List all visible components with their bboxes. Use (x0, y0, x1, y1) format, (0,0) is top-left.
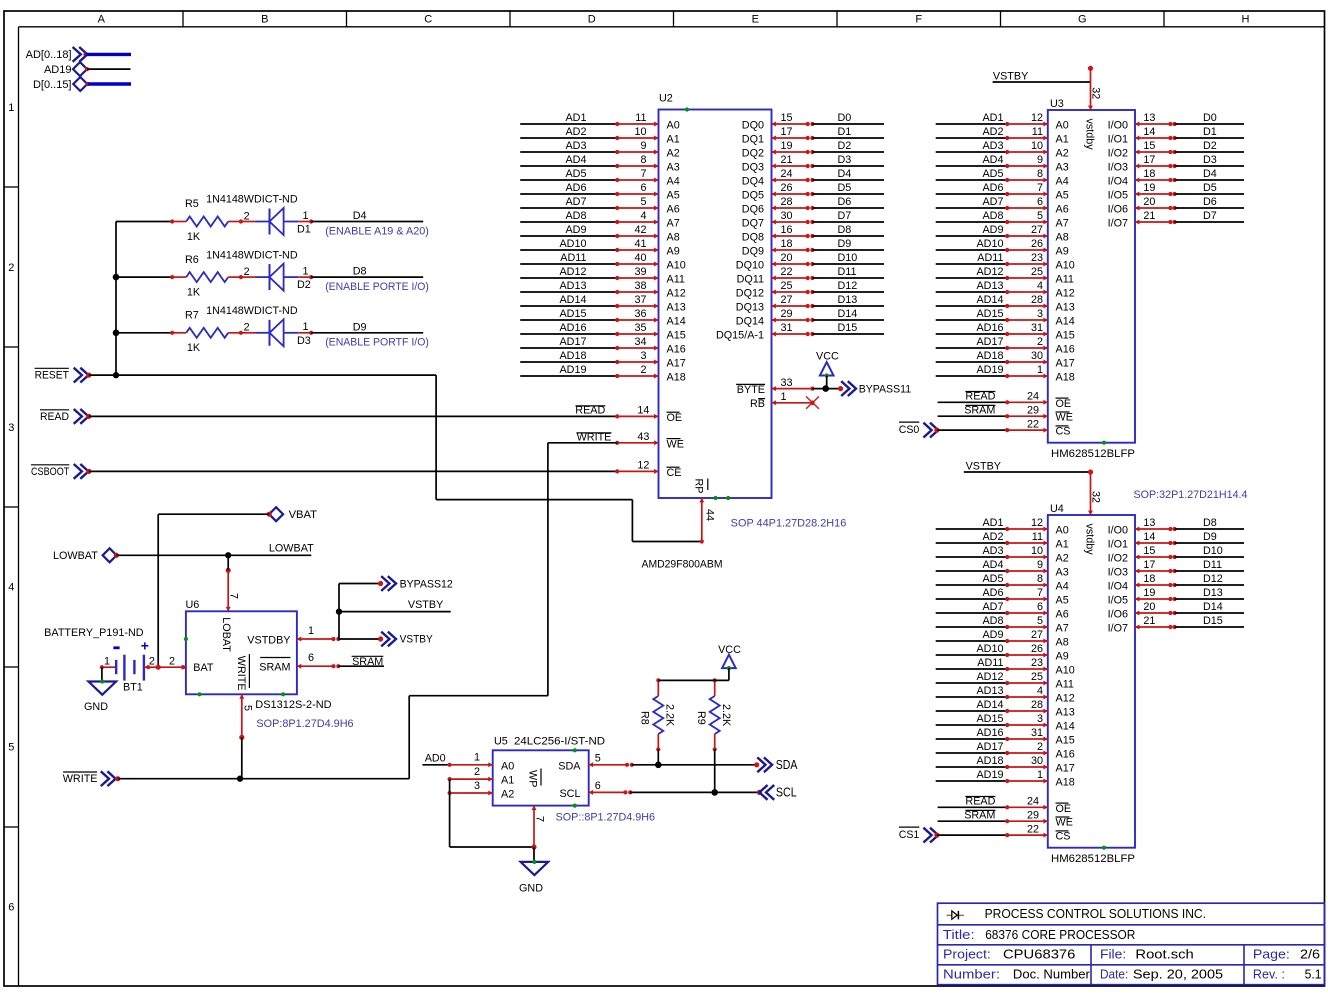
svg-text:VSTBY: VSTBY (966, 461, 1001, 473)
label 1N4148WDICT-ND for diode D3 (206, 305, 298, 317)
svg-text:CS: CS (1056, 831, 1071, 843)
svg-text:AD16: AD16 (559, 322, 586, 334)
svg-text:14: 14 (1143, 126, 1155, 138)
svg-text:Doc. Number: Doc. Number (1013, 967, 1091, 982)
svg-text:AD4: AD4 (565, 154, 586, 166)
svg-text:A2: A2 (667, 148, 680, 160)
pin number 2 of diode D2 (244, 266, 250, 278)
svg-text:24: 24 (1027, 391, 1039, 403)
svg-text:68376 CORE PROCESSOR: 68376 CORE PROCESSOR (985, 927, 1135, 942)
svg-text:1: 1 (1037, 769, 1043, 781)
U3 pin 22 CS wire from CS0 (937, 418, 1071, 437)
svg-text:3: 3 (474, 780, 480, 792)
U5 pin 7 WP (527, 769, 546, 850)
bus wire D[0..15] (88, 82, 131, 85)
U3 pin 29 WE wire SRAM (938, 404, 1073, 423)
svg-text:AMD29F800ABM: AMD29F800ABM (642, 559, 723, 571)
U3 pin 12 A0 wire AD1 (936, 112, 1069, 131)
svg-text:2: 2 (244, 210, 250, 222)
svg-text:vstdby: vstdby (1083, 119, 1095, 151)
label (ENABLE A19 & A20) (325, 225, 429, 237)
U4 pin 18 I/O4 wire D12 (1108, 573, 1244, 592)
svg-text:40: 40 (634, 252, 646, 264)
svg-text:5: 5 (1037, 615, 1043, 627)
U6 pin 7 LOBAT (220, 568, 239, 653)
svg-text:D9: D9 (838, 238, 852, 250)
port READ (40, 409, 91, 424)
svg-text:A15: A15 (1056, 330, 1075, 342)
title block row 4 Number Date Rev (943, 967, 1322, 982)
svg-text:2: 2 (149, 655, 155, 667)
svg-text:A16: A16 (667, 344, 686, 356)
svg-text:36: 36 (634, 308, 646, 320)
svg-text:I/O2: I/O2 (1108, 148, 1128, 160)
svg-text:DQ6: DQ6 (742, 204, 764, 216)
svg-text:VSTBY: VSTBY (993, 71, 1028, 83)
U4 pin 32 vstdby (1083, 469, 1101, 555)
svg-text:1K: 1K (187, 231, 201, 243)
wire U5 A1/A2 to WP/GND (450, 779, 534, 847)
svg-text:R8: R8 (639, 711, 651, 725)
label SOP::8P1.27D4.9H6 for U5 (556, 811, 655, 823)
svg-text:WE: WE (1056, 412, 1073, 424)
svg-text:1K: 1K (187, 342, 201, 354)
svg-text:CS: CS (1056, 426, 1071, 438)
svg-text:AD19: AD19 (976, 769, 1003, 781)
U2 pin 38 A12 wire AD13 (520, 280, 686, 299)
label (ENABLE PORTF I/O) (325, 337, 429, 349)
U3 pin 7 A5 wire AD6 (936, 182, 1069, 201)
svg-text:D11: D11 (1203, 559, 1222, 571)
svg-text:12: 12 (1031, 112, 1043, 124)
svg-text:4: 4 (1037, 685, 1043, 697)
svg-text:(ENABLE PORTE I/O): (ENABLE PORTE I/O) (325, 281, 429, 293)
svg-text:AD18: AD18 (976, 350, 1003, 362)
svg-text:U2: U2 (659, 93, 673, 105)
wire to resistor R7 (116, 332, 172, 334)
svg-text:D15: D15 (1203, 615, 1223, 627)
svg-text:WE: WE (1056, 817, 1073, 829)
svg-text:AD10: AD10 (976, 238, 1003, 250)
svg-text:WP: WP (527, 770, 539, 787)
svg-text:D2: D2 (838, 140, 852, 152)
pin number 1 of diode D3 (302, 321, 308, 333)
svg-text:U3: U3 (1050, 98, 1064, 110)
svg-text:19: 19 (781, 140, 793, 152)
svg-text:AD19: AD19 (976, 364, 1003, 376)
svg-text:AD12: AD12 (559, 266, 586, 278)
svg-text:BYPASS11: BYPASS11 (859, 383, 911, 395)
wire WRITE vertical to U2 WE (548, 443, 617, 696)
port CS0 (899, 422, 940, 437)
svg-text:AD14: AD14 (976, 294, 1003, 306)
svg-text:D4: D4 (1203, 168, 1217, 180)
U2 pin 40 A10 wire AD11 (520, 252, 686, 271)
svg-text:H: H (1242, 14, 1250, 26)
svg-text:20: 20 (781, 252, 793, 264)
svg-text:29: 29 (1027, 809, 1039, 821)
svg-text:R7: R7 (185, 310, 199, 322)
svg-text:44: 44 (703, 509, 715, 521)
svg-text:AD11: AD11 (977, 657, 1003, 669)
label 1N4148WDICT-ND for diode D2 (206, 249, 298, 261)
net label VSTBY wire at U3 top (993, 71, 1091, 83)
U2 pin 26 DQ5 wire D5 (742, 182, 884, 201)
wire and port BYPASS12 (339, 576, 453, 591)
svg-text:6: 6 (595, 780, 601, 792)
svg-text:A8: A8 (1056, 637, 1069, 649)
svg-text:D7: D7 (838, 210, 852, 222)
svg-text:4: 4 (640, 210, 646, 222)
svg-text:GND: GND (84, 701, 108, 713)
svg-text:A9: A9 (667, 246, 680, 258)
port D[0..15] (33, 77, 90, 91)
svg-text:A11: A11 (1056, 679, 1074, 691)
svg-text:SCL: SCL (559, 788, 580, 800)
port LOWBAT (53, 548, 119, 562)
U3 pin 20 I/O6 wire D6 (1108, 196, 1244, 215)
label SOP:8P1.27D4.9H6 for U6 (256, 718, 353, 730)
svg-text:2: 2 (474, 766, 480, 778)
svg-text:A13: A13 (1056, 707, 1075, 719)
svg-text:13: 13 (1143, 112, 1155, 124)
U3 pin 1 A18 wire AD19 (936, 364, 1075, 383)
svg-text:WRITE: WRITE (63, 773, 98, 785)
svg-text:AD5: AD5 (982, 168, 1003, 180)
label SOP:32P1.27D21H14.4 for U4 (1134, 489, 1248, 501)
svg-text:5.1: 5.1 (1305, 967, 1322, 982)
svg-text:D4: D4 (838, 168, 852, 180)
svg-text:A4: A4 (1056, 176, 1069, 188)
svg-text:A18: A18 (1056, 777, 1075, 789)
U3 pin 32 vstdby (1083, 66, 1101, 151)
label 1N4148WDICT-ND for diode D1 (206, 194, 298, 206)
U2 pin 14 OE with READ label (575, 405, 605, 417)
U2 pin 39 A11 wire AD12 (520, 266, 685, 285)
svg-text:D6: D6 (838, 196, 852, 208)
U3 pin 15 I/O2 wire D2 (1108, 140, 1244, 159)
svg-text:GND: GND (519, 883, 543, 895)
svg-text:BYPASS12: BYPASS12 (400, 578, 453, 590)
U4 pin 7 A5 wire AD6 (936, 587, 1069, 606)
label AMD29F800ABM for U2 (642, 559, 723, 571)
svg-text:A1: A1 (667, 134, 680, 146)
svg-text:10: 10 (1031, 140, 1043, 152)
U4 pin 31 A15 wire AD16 (936, 727, 1075, 746)
svg-text:7: 7 (534, 816, 546, 822)
wire trunk from RESET up to R5/R6/R7 (113, 222, 120, 376)
U2 pin 18 DQ9 wire D9 (742, 238, 884, 257)
svg-text:A14: A14 (1056, 721, 1075, 733)
svg-text:17: 17 (1143, 559, 1155, 571)
svg-text:U5: U5 (494, 736, 508, 748)
U5 pin 1 A0 wire AD0 (422, 752, 514, 773)
svg-text:A12: A12 (1056, 288, 1075, 300)
wire VBAT to battery junction (156, 514, 270, 670)
U2 pin 34 A16 wire AD17 (520, 336, 686, 355)
svg-text:2.2K: 2.2K (664, 704, 676, 727)
power symbol VCC at R8/R9 (718, 644, 741, 681)
svg-text:RB: RB (750, 398, 765, 410)
U2 pin 42 A8 wire AD9 (520, 224, 680, 243)
U4 pin 22 CS wire from CS1 (937, 823, 1071, 842)
svg-text:12: 12 (1031, 517, 1043, 529)
U2 pin 12 CE (615, 460, 681, 479)
svg-text:OE: OE (1056, 398, 1072, 410)
svg-text:AD9: AD9 (982, 629, 1003, 641)
svg-text:D[0..15]: D[0..15] (33, 79, 72, 91)
U2 pin 6 A5 wire AD6 (520, 182, 680, 201)
U3 pin 23 A10 wire AD11 (936, 252, 1075, 271)
svg-text:15: 15 (781, 112, 793, 124)
svg-text:A7: A7 (1056, 623, 1069, 635)
svg-text:1: 1 (781, 391, 787, 403)
svg-text:A2: A2 (1056, 148, 1069, 160)
U4 pin 27 A8 wire AD9 (936, 629, 1069, 648)
U4 pin 12 A0 wire AD1 (936, 517, 1069, 536)
svg-text:38: 38 (634, 280, 646, 292)
diode D2 (241, 264, 313, 292)
svg-text:E: E (752, 14, 759, 26)
U4 pin 21 I/O7 wire D15 (1108, 615, 1244, 634)
svg-text:CSBOOT: CSBOOT (31, 466, 70, 478)
U3 pin 28 A13 wire AD14 (936, 294, 1075, 313)
svg-text:DQ13: DQ13 (736, 302, 764, 314)
wire net D8 (311, 266, 423, 278)
U4 pin 1 A18 wire AD19 (936, 769, 1075, 788)
title block (938, 903, 1325, 985)
svg-text:A12: A12 (1056, 693, 1075, 705)
svg-text:I/O1: I/O1 (1108, 539, 1128, 551)
svg-text:A13: A13 (1056, 302, 1075, 314)
U2 pin 35 A15 wire AD16 (520, 322, 686, 341)
svg-text:D2: D2 (297, 279, 311, 291)
svg-text:A9: A9 (1056, 651, 1069, 663)
svg-text:3: 3 (1037, 308, 1043, 320)
battery BT1 BATTERY_P191-ND (44, 627, 158, 694)
svg-text:41: 41 (634, 238, 646, 250)
svg-text:1: 1 (104, 655, 110, 667)
U3 pin 30 A17 wire AD18 (936, 350, 1075, 369)
svg-text:A3: A3 (667, 162, 680, 174)
svg-text:32: 32 (1089, 491, 1101, 503)
svg-text:BAT: BAT (193, 662, 214, 674)
U6 pin 5 WRITE (235, 654, 254, 740)
IC U3 HM628512BLFP body (1048, 98, 1135, 445)
port WRITE (63, 771, 121, 786)
U2 pin 30 DQ7 wire D7 (742, 210, 884, 229)
label R7 refdes and 1K value (185, 310, 201, 355)
svg-text:A0: A0 (667, 120, 680, 132)
U3 pin 14 I/O1 wire D1 (1108, 126, 1244, 145)
svg-text:28: 28 (781, 196, 793, 208)
U3 pin 27 A8 wire AD9 (936, 224, 1069, 243)
svg-text:27: 27 (781, 294, 793, 306)
svg-text:AD19: AD19 (559, 364, 586, 376)
svg-text:2: 2 (244, 322, 250, 334)
svg-text:AD9: AD9 (982, 224, 1003, 236)
svg-text:A0: A0 (501, 760, 514, 772)
svg-text:A5: A5 (667, 190, 680, 202)
svg-text:1N4148WDICT-ND: 1N4148WDICT-ND (206, 305, 298, 317)
svg-text:D0: D0 (1203, 112, 1217, 124)
svg-text:A0: A0 (1056, 120, 1069, 132)
svg-text:D0: D0 (838, 112, 852, 124)
wire BYTE to BYPASS11 with junction (812, 385, 840, 392)
port RESET (35, 368, 92, 383)
svg-text:SRAM: SRAM (964, 809, 995, 821)
svg-text:1: 1 (8, 102, 14, 114)
svg-text:D1: D1 (297, 224, 311, 236)
svg-text:30: 30 (1031, 755, 1043, 767)
svg-text:Project:: Project: (943, 947, 991, 962)
svg-text:R6: R6 (185, 254, 199, 266)
svg-text:HM628512BLFP: HM628512BLFP (1051, 853, 1135, 865)
U2 pin 1 RB with no-connect X (750, 391, 819, 410)
svg-text:U4: U4 (1050, 503, 1064, 515)
svg-text:SRAM: SRAM (964, 404, 995, 416)
IC U5 24LC256-I/ST-ND body (493, 736, 606, 808)
svg-text:5: 5 (8, 742, 14, 754)
U4 pin 5 A7 wire AD8 (936, 615, 1069, 634)
wire CSBOOT to U2 CE (89, 470, 617, 472)
svg-text:LOWBAT: LOWBAT (269, 542, 314, 554)
svg-text:20: 20 (1143, 196, 1155, 208)
svg-text:A17: A17 (667, 358, 686, 370)
svg-text:A16: A16 (1056, 344, 1075, 356)
svg-text:I/O6: I/O6 (1108, 204, 1128, 216)
svg-text:SRAM: SRAM (259, 662, 290, 674)
U2 pin 2 A18 wire AD19 (520, 364, 686, 383)
U5 pin 3 A2 (448, 780, 515, 801)
wire READ to U2 OE (89, 415, 617, 417)
port SCL (757, 785, 797, 800)
svg-text:AD16: AD16 (976, 322, 1003, 334)
svg-text:SOP 44P1.27D28.2H16: SOP 44P1.27D28.2H16 (731, 517, 847, 529)
svg-text:I/O7: I/O7 (1108, 218, 1128, 230)
svg-text:DQ11: DQ11 (737, 274, 764, 286)
IC U2 AMD29F800ABM body (659, 93, 772, 499)
svg-text:DQ4: DQ4 (742, 176, 764, 188)
svg-text:30: 30 (1031, 350, 1043, 362)
svg-text:C: C (424, 14, 432, 26)
svg-text:8: 8 (640, 154, 646, 166)
svg-text:Sep. 20, 2005: Sep. 20, 2005 (1133, 967, 1223, 982)
port BYPASS11 (838, 381, 911, 396)
svg-text:VSTBY: VSTBY (408, 599, 443, 611)
svg-text:20: 20 (1143, 601, 1155, 613)
svg-text:29: 29 (1027, 404, 1039, 416)
label R5 refdes and 1K value (185, 198, 201, 243)
svg-text:AD14: AD14 (976, 699, 1003, 711)
svg-text:A8: A8 (667, 232, 680, 244)
svg-text:VBAT: VBAT (289, 509, 318, 521)
svg-text:26: 26 (781, 182, 793, 194)
port SDA (754, 757, 798, 772)
svg-text:VSTBY: VSTBY (400, 634, 433, 646)
U4 pin 6 A6 wire AD7 (936, 601, 1069, 620)
svg-text:24LC256-I/ST-ND: 24LC256-I/ST-ND (514, 736, 605, 748)
svg-text:AD14: AD14 (559, 294, 586, 306)
svg-text:D14: D14 (838, 308, 858, 320)
U3 pin 2 A16 wire AD17 (936, 336, 1075, 355)
svg-text:VCC: VCC (816, 350, 839, 362)
svg-text:CS0: CS0 (899, 424, 920, 436)
svg-text:AD17: AD17 (976, 336, 1003, 348)
svg-text:30: 30 (781, 210, 793, 222)
svg-text:D13: D13 (838, 294, 858, 306)
svg-text:31: 31 (781, 322, 793, 334)
U2 pin 8 A3 wire AD4 (520, 154, 680, 173)
svg-text:25: 25 (1031, 266, 1043, 278)
svg-text:AD6: AD6 (982, 587, 1003, 599)
svg-text:A15: A15 (1056, 735, 1075, 747)
svg-text:I/O4: I/O4 (1108, 581, 1128, 593)
U2 pin 44 RP (693, 479, 731, 544)
svg-text:AD13: AD13 (976, 685, 1003, 697)
svg-text:D3: D3 (838, 154, 852, 166)
svg-text:7: 7 (1037, 587, 1043, 599)
svg-text:AD3: AD3 (982, 545, 1003, 557)
svg-text:WRITE: WRITE (235, 656, 247, 691)
svg-text:39: 39 (634, 266, 646, 278)
svg-text:AD15: AD15 (976, 308, 1003, 320)
U2 pin 3 A17 wire AD18 (520, 350, 686, 369)
svg-text:D12: D12 (1203, 573, 1223, 585)
svg-text:(ENABLE PORTF I/O): (ENABLE PORTF I/O) (325, 337, 429, 349)
wire LOWBAT with junction to U6 LOBAT (116, 542, 314, 570)
company logo diode (947, 911, 964, 920)
wire SCL with junction to R9 (630, 789, 759, 796)
svg-text:OE: OE (1056, 803, 1072, 815)
U2 pin 36 A14 wire AD15 (520, 308, 686, 327)
port CSBOOT (31, 464, 91, 479)
svg-text:15: 15 (1143, 140, 1155, 152)
ground symbol GND at U5 (519, 847, 548, 895)
svg-text:22: 22 (1027, 418, 1039, 430)
U4 pin 11 A1 wire AD2 (936, 531, 1069, 550)
svg-text:35: 35 (634, 322, 646, 334)
svg-text:SCL: SCL (776, 785, 797, 800)
svg-text:AD8: AD8 (982, 615, 1003, 627)
svg-text:DQ14: DQ14 (736, 316, 764, 328)
svg-text:A2: A2 (501, 789, 514, 801)
U2 pin 11 A0 wire AD1 (520, 112, 680, 131)
svg-text:I/O1: I/O1 (1108, 134, 1128, 146)
svg-text:D7: D7 (1203, 210, 1217, 222)
svg-text:1: 1 (302, 266, 308, 278)
svg-text:2: 2 (640, 364, 646, 376)
U2 pin 5 A6 wire AD7 (520, 196, 680, 215)
svg-text:6: 6 (1037, 601, 1043, 613)
svg-text:AD4: AD4 (982, 154, 1003, 166)
U4 pin 10 A2 wire AD3 (936, 545, 1069, 564)
U4 pin 28 A13 wire AD14 (936, 699, 1075, 718)
U4 pin 15 I/O2 wire D10 (1108, 545, 1244, 564)
svg-text:A6: A6 (667, 204, 680, 216)
svg-text:1: 1 (1037, 364, 1043, 376)
wire WRITE trunk (118, 696, 548, 782)
U2 pin 33 BYTE (736, 377, 814, 396)
U5 pin 5 SDA (558, 753, 634, 773)
svg-text:CS1: CS1 (899, 829, 920, 841)
svg-text:AD12: AD12 (976, 671, 1003, 683)
svg-text:HM628512BLFP: HM628512BLFP (1051, 448, 1135, 460)
wire AD19 (87, 68, 131, 70)
svg-text:DQ1: DQ1 (742, 134, 764, 146)
U4 pin 25 A11 wire AD12 (936, 671, 1074, 690)
svg-text:I/O4: I/O4 (1108, 176, 1128, 188)
